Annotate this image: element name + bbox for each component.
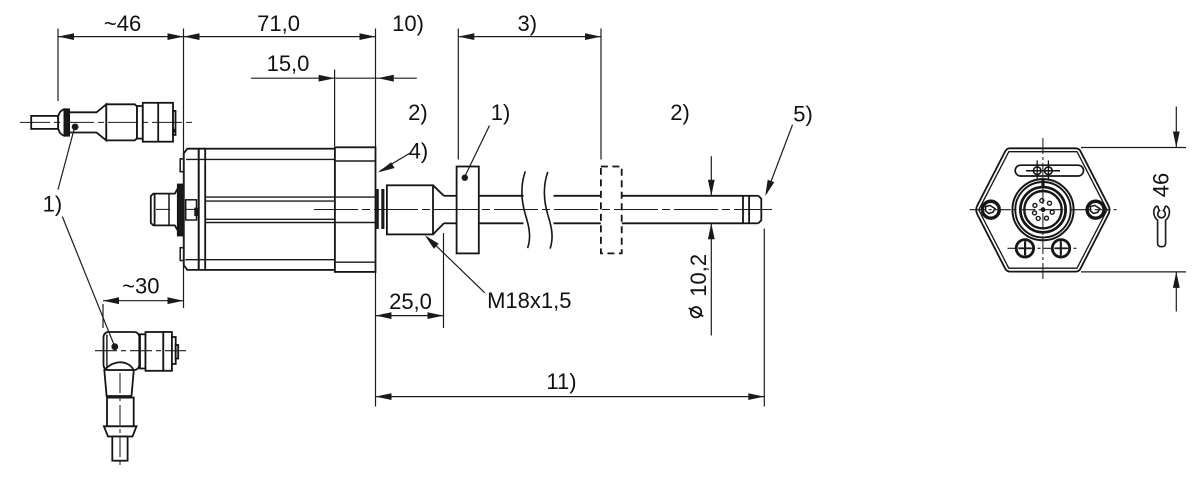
svg-text:10): 10) [392,11,424,36]
svg-text:~46: ~46 [104,11,141,36]
svg-text:3): 3) [518,11,538,36]
svg-text:~30: ~30 [122,274,159,299]
svg-text:5): 5) [793,102,813,127]
svg-text:1): 1) [491,100,511,125]
svg-text:1): 1) [43,192,63,217]
svg-text:46: 46 [1149,173,1174,197]
svg-text:2): 2) [670,100,690,125]
svg-text:10,2: 10,2 [686,254,711,297]
svg-text:2): 2) [408,100,428,125]
svg-text:71,0: 71,0 [257,11,300,36]
svg-text:4): 4) [409,139,429,164]
svg-text:M18x1,5: M18x1,5 [487,288,571,313]
svg-text:25,0: 25,0 [389,289,432,314]
svg-text:11): 11) [546,369,576,394]
svg-text:15,0: 15,0 [267,51,310,76]
